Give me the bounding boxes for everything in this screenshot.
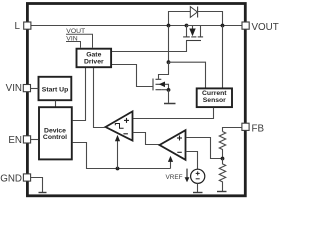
wire arrow into comparator xyxy=(117,141,119,169)
svg-text:GND: GND xyxy=(0,173,22,184)
svg-text:EN: EN xyxy=(8,135,22,146)
block Gate Driver xyxy=(77,49,112,67)
transistor Q1 main switch xyxy=(153,62,169,90)
wire Device Control to Gate Driver xyxy=(72,68,85,121)
node Q1 source junction dot xyxy=(167,88,171,92)
wire Q2 gate to gate driver xyxy=(112,41,187,52)
wire Q1 drain to current sensor xyxy=(169,62,206,88)
svg-text:L: L xyxy=(15,21,21,32)
wire SW node down to Q1 drain xyxy=(168,26,170,63)
wire Q1 source to ground xyxy=(168,90,170,103)
block Current Sensor xyxy=(197,88,232,107)
transistor Q2 synchronous rectifier xyxy=(183,26,203,41)
wire GND pin to ground xyxy=(31,178,43,193)
diode D1 xyxy=(190,7,197,18)
op-amp U1 PWM comparator xyxy=(106,111,133,140)
node divider tap junction dot xyxy=(221,157,225,161)
pin FB xyxy=(242,123,249,130)
svg-text:Driver: Driver xyxy=(84,59,104,66)
pin VOUT xyxy=(242,22,249,29)
wire VIN pin to Start Up xyxy=(31,88,39,90)
pin L xyxy=(24,22,31,29)
wire VREF to ground xyxy=(197,183,199,192)
svg-text:Start Up: Start Up xyxy=(42,86,68,93)
ground at R2 xyxy=(217,191,227,193)
wire diode cathode to VOUT node xyxy=(198,12,223,26)
wire error amp minus input to VREF xyxy=(186,152,198,170)
label VREF with arrow xyxy=(165,169,189,183)
node enable rail junction dot xyxy=(116,167,120,171)
pin GND xyxy=(23,174,30,181)
block Start Up xyxy=(39,77,72,100)
wire Device Control to amplifier enable rail xyxy=(72,143,170,169)
voltage source VREF xyxy=(191,169,205,183)
svg-text:Sensor: Sensor xyxy=(203,97,226,104)
wire EN pin to Device Control xyxy=(31,139,38,141)
svg-text:FB: FB xyxy=(252,123,265,134)
wire arrow into error amp xyxy=(170,162,172,169)
pin EN xyxy=(23,136,30,143)
wire error amp plus input to divider tap xyxy=(186,138,223,159)
svg-text:Control: Control xyxy=(43,134,67,141)
node Q1 drain junction dot xyxy=(167,60,171,64)
wire comparator output to gate driver xyxy=(94,68,106,128)
wire FB pin to divider xyxy=(223,128,242,132)
node rectifier left-contact dot xyxy=(185,24,189,28)
pin VIN xyxy=(23,85,30,92)
ground at GND pin xyxy=(39,192,47,194)
resistor R2 lower divider xyxy=(219,159,225,192)
IC outer border xyxy=(27,4,245,196)
wire Q1 gate to gate driver xyxy=(112,65,153,87)
resistor R1 upper divider xyxy=(219,132,225,159)
op-amp U2 error amplifier xyxy=(160,130,186,160)
node VOUT junction dot xyxy=(221,24,225,28)
net label VOUT above gate driver xyxy=(66,28,93,48)
ground at VREF xyxy=(193,192,203,194)
wire Start Up to Device Control xyxy=(55,101,57,107)
wire comparator minus input to error amp output xyxy=(133,133,160,145)
wire L to VOUT switch-node rail xyxy=(31,25,242,27)
wire diode anode branch xyxy=(169,12,191,26)
net label VIN above gate driver xyxy=(66,36,81,48)
block Device Control xyxy=(39,107,72,159)
svg-text:VIN: VIN xyxy=(6,83,22,94)
svg-text:VOUT: VOUT xyxy=(252,22,279,33)
node SW junction dot xyxy=(167,24,171,28)
wire VOUT node to current sensor xyxy=(222,26,224,89)
wire current sensor to comparator plus input xyxy=(133,108,213,119)
svg-text:VREF: VREF xyxy=(165,174,182,181)
ground at Q1 source xyxy=(164,103,176,105)
